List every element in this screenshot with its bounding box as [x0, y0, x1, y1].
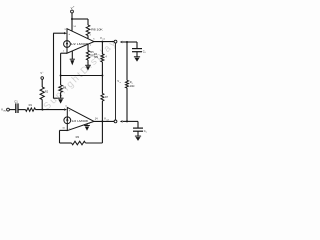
wire +input U1	[53, 32, 64, 34]
wire chain bottom	[101, 101, 103, 143]
ground R6	[58, 97, 64, 99]
wire load line lower	[126, 88, 128, 121]
arrow load bottom	[120, 120, 123, 122]
svg-text:R1: R1	[29, 103, 33, 107]
resistor R1	[26, 108, 36, 111]
svg-text:10Ω: 10Ω	[130, 85, 135, 88]
svg-text:1/2 LM308: 1/2 LM308	[71, 119, 88, 123]
node rail-chain	[101, 75, 103, 77]
svg-text:C1: C1	[14, 100, 18, 104]
node load bottom	[126, 120, 128, 122]
svg-text:14: 14	[73, 26, 76, 28]
wire output U1	[94, 41, 114, 43]
resistor R8	[86, 25, 90, 36]
terminal Vin	[7, 108, 10, 111]
node R6 bottom	[60, 95, 62, 97]
wire input	[9, 109, 15, 111]
wire -input U2 feedback	[60, 129, 68, 131]
resistor R4	[101, 54, 104, 62]
arrow load top	[120, 41, 123, 43]
node supply junction	[71, 18, 73, 20]
svg-text:R2: R2	[45, 90, 49, 93]
resistor RL	[126, 80, 129, 88]
capacitor CL top	[136, 42, 138, 48]
svg-text:L: L	[146, 132, 148, 134]
wire supply to op-amp U1 pin 14	[71, 19, 73, 31]
ground U1	[71, 51, 73, 59]
arrow +input U2	[64, 108, 67, 110]
svg-text:R7: R7	[105, 96, 109, 99]
node input bias	[42, 109, 44, 111]
svg-text:2: 2	[90, 34, 92, 36]
svg-text:o: o	[120, 82, 122, 84]
wire R3 to output	[86, 142, 103, 144]
svg-text:10: 10	[62, 128, 65, 130]
wire C1 to R1	[18, 109, 26, 111]
wire bias rail	[61, 75, 103, 77]
svg-text:5: 5	[93, 39, 95, 41]
wire chain top	[101, 42, 103, 54]
svg-text:14: 14	[95, 118, 98, 121]
svg-text:+: +	[42, 72, 44, 74]
wire load line upper	[126, 42, 128, 80]
svg-text:3: 3	[64, 29, 66, 31]
ground U2	[86, 124, 88, 125]
svg-text:7: 7	[89, 123, 91, 125]
wire load top	[123, 41, 137, 43]
wire load bottom	[123, 120, 138, 122]
node rail left	[60, 75, 62, 77]
node load top	[126, 41, 128, 43]
ground R5	[85, 64, 91, 66]
svg-text:R3: R3	[76, 135, 80, 139]
capacitor C1	[15, 103, 17, 113]
current source U2	[64, 117, 71, 124]
svg-text:+: +	[68, 32, 70, 36]
op-amp U1 (1/2 LM308)	[67, 29, 94, 54]
svg-text:IN: IN	[3, 110, 6, 112]
resistor R6	[60, 76, 62, 86]
wire output U2	[94, 120, 114, 122]
op-amp U2 (1/2 LM308)	[67, 107, 94, 130]
svg-text:+: +	[73, 5, 75, 8]
capacitor CL bottom	[137, 121, 139, 127]
ground CL bottom	[135, 135, 141, 137]
resistor R7	[101, 94, 104, 102]
resistor R2	[41, 79, 43, 87]
V+ supply terminal	[71, 10, 74, 13]
node output1	[101, 41, 103, 43]
ground CL top	[134, 56, 140, 58]
watermark	[42, 37, 120, 112]
terminal Vo1	[114, 40, 117, 43]
resistor R3	[72, 141, 86, 145]
node output2	[101, 120, 103, 122]
wire R1 to amp	[36, 109, 65, 111]
svg-text:1/2 LM308: 1/2 LM308	[71, 42, 89, 46]
svg-text:+: +	[69, 109, 71, 113]
wire V+ to junction	[71, 13, 73, 19]
wire -input U1	[61, 52, 67, 54]
wire Vo1-Vo2 jumper	[115, 43, 117, 120]
svg-text:o1: o1	[102, 39, 105, 41]
wire supply branch right	[72, 18, 88, 20]
svg-text:1: 1	[63, 51, 65, 53]
resistor R5	[87, 44, 89, 50]
svg-text:(R9: (R9	[94, 56, 99, 59]
current source U1	[64, 41, 71, 48]
wire chain mid	[101, 62, 103, 94]
svg-text:L: L	[145, 52, 147, 54]
terminal Vo2	[114, 120, 117, 123]
svg-text:7: 7	[90, 45, 92, 47]
svg-text:R8 10K: R8 10K	[91, 27, 103, 31]
